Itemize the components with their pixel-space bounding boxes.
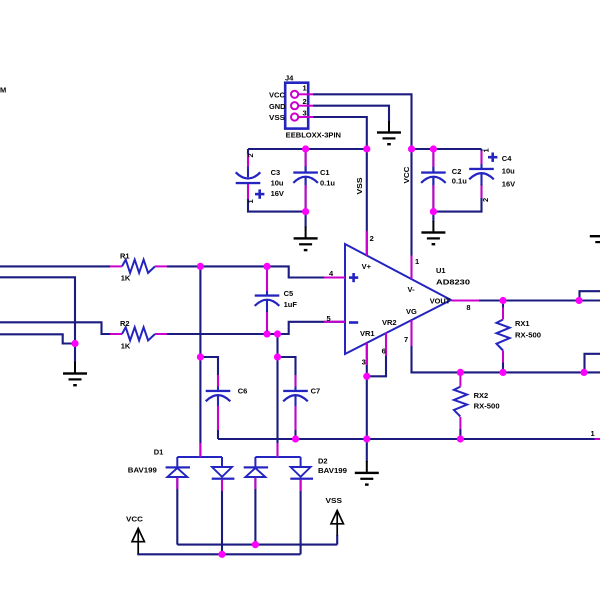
- svg-text:BAV199: BAV199: [128, 465, 157, 474]
- svg-text:V+: V+: [362, 262, 372, 271]
- svg-text:RX1: RX1: [515, 319, 530, 328]
- svg-text:GND: GND: [269, 102, 286, 111]
- svg-text:3: 3: [362, 358, 366, 367]
- svg-text:6: 6: [382, 346, 386, 355]
- svg-text:1uF: 1uF: [284, 300, 298, 309]
- svg-text:BAV199: BAV199: [318, 466, 347, 475]
- svg-text:AD8230: AD8230: [436, 278, 470, 287]
- svg-text:VG: VG: [406, 307, 417, 316]
- svg-text:M: M: [0, 86, 6, 95]
- svg-text:2: 2: [370, 234, 374, 243]
- svg-text:VCC: VCC: [269, 91, 286, 100]
- svg-text:16V: 16V: [271, 189, 284, 198]
- svg-text:10u: 10u: [271, 178, 284, 187]
- svg-text:2: 2: [481, 198, 490, 202]
- svg-text:VR2: VR2: [382, 318, 397, 327]
- svg-text:VCC: VCC: [126, 515, 144, 524]
- svg-text:7: 7: [404, 335, 408, 344]
- svg-text:0.1u: 0.1u: [452, 176, 467, 185]
- svg-text:J4: J4: [285, 73, 294, 82]
- svg-text:C6: C6: [238, 387, 248, 396]
- svg-text:16V: 16V: [502, 180, 515, 189]
- svg-text:1K: 1K: [121, 341, 131, 350]
- svg-text:C1: C1: [320, 168, 330, 177]
- svg-text:V-: V-: [408, 285, 416, 294]
- svg-text:RX-500: RX-500: [515, 330, 541, 339]
- svg-text:8: 8: [466, 303, 470, 312]
- svg-text:EEBLOXX-3PIN: EEBLOXX-3PIN: [286, 130, 341, 139]
- svg-text:5: 5: [327, 314, 331, 323]
- svg-text:VR1: VR1: [360, 329, 375, 338]
- svg-text:VCC: VCC: [402, 166, 411, 184]
- svg-text:R2: R2: [120, 319, 130, 328]
- svg-text:RX2: RX2: [474, 391, 489, 400]
- svg-text:1: 1: [415, 257, 419, 266]
- svg-text:R1: R1: [120, 251, 130, 260]
- svg-text:2: 2: [246, 153, 255, 157]
- svg-text:VSS: VSS: [355, 178, 364, 195]
- svg-text:C4: C4: [502, 154, 512, 163]
- svg-text:VSS: VSS: [326, 496, 343, 505]
- svg-text:VOUT: VOUT: [430, 296, 451, 305]
- svg-text:D1: D1: [154, 448, 164, 457]
- svg-text:C3: C3: [271, 168, 281, 177]
- svg-text:C7: C7: [311, 387, 321, 396]
- svg-text:D2: D2: [318, 457, 328, 466]
- svg-text:VSS: VSS: [269, 113, 285, 122]
- svg-text:RX-500: RX-500: [474, 402, 500, 411]
- svg-text:U1: U1: [436, 266, 446, 275]
- svg-text:2: 2: [303, 97, 307, 106]
- svg-text:C5: C5: [284, 289, 294, 298]
- svg-text:0.1u: 0.1u: [320, 178, 335, 187]
- svg-text:1: 1: [482, 148, 491, 152]
- svg-text:1: 1: [246, 199, 255, 203]
- svg-text:1K: 1K: [121, 274, 131, 283]
- svg-text:1: 1: [591, 429, 595, 438]
- svg-text:10u: 10u: [502, 167, 515, 176]
- svg-text:3: 3: [303, 108, 307, 117]
- svg-text:C2: C2: [452, 167, 462, 176]
- svg-text:1: 1: [303, 84, 307, 93]
